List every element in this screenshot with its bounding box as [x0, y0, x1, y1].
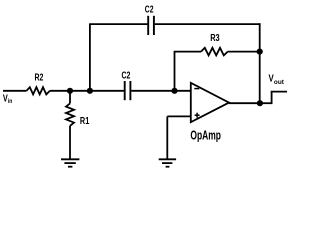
wire R3 left lead [174, 51, 201, 53]
capacitor C2 (series input) [125, 81, 131, 100]
ground (below R1) [61, 159, 79, 166]
node A junction dot (R1 tap) [67, 88, 73, 94]
resistor R3 [201, 48, 228, 56]
wire R2 to C2 (through node A and node B) [50, 90, 124, 92]
wire top rail right (top C2 to output rail) [155, 23, 261, 25]
svg-text:out: out [274, 79, 285, 86]
svg-text:R2: R2 [35, 72, 44, 83]
svg-text:R3: R3 [210, 33, 220, 44]
wire Vin to R2 [3, 90, 27, 92]
wire non-inverting input down to ground [166, 116, 168, 158]
svg-text:C2: C2 [122, 70, 131, 81]
resistor R2 [27, 87, 50, 94]
capacitor C2 (top feedback) [148, 16, 154, 35]
wire top rail left (to top C2) [89, 23, 147, 25]
wire node B up to top rail [89, 24, 91, 91]
wire op-amp output to node E [229, 102, 260, 104]
wire C2 to op-amp inverting input [131, 90, 190, 92]
wire Vout step vertical [271, 92, 273, 105]
node D junction dot (R3/output rail) [257, 49, 263, 55]
svg-text:in: in [8, 98, 13, 105]
node C junction dot (R3 tap at inverting input) [171, 88, 177, 94]
op-amp inverting input marker [194, 88, 199, 90]
svg-text:OpAmp: OpAmp [190, 128, 221, 142]
svg-text:C2: C2 [145, 4, 154, 15]
ground (op-amp non-inverting input) [159, 159, 176, 166]
wire non-inverting input horizontal segment [167, 115, 190, 117]
node Vin label [3, 94, 13, 106]
wire node E to Vout step [260, 102, 272, 104]
wire R1 to ground [69, 126, 71, 159]
node Vout label [269, 74, 285, 87]
wire output rail vertical [259, 23, 261, 103]
wire node C up to R3 [174, 52, 176, 91]
wire Vout terminal horizontal [271, 91, 287, 93]
node E junction dot (output node) [257, 100, 263, 106]
node B junction dot (top C2 branch tap) [87, 88, 93, 94]
wire R3 right lead to output rail [228, 51, 260, 53]
op-amp U1 [191, 83, 229, 122]
resistor R1 [66, 103, 74, 125]
svg-text:R1: R1 [80, 116, 90, 127]
wire node A down to R1 [69, 91, 71, 104]
op-amp non-inverting input marker [195, 113, 200, 118]
